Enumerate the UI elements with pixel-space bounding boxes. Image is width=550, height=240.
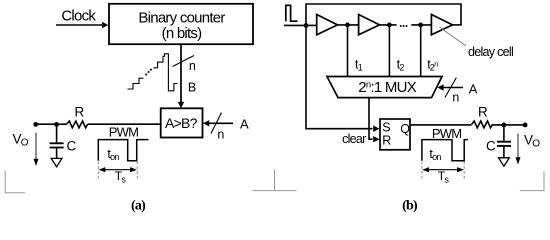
svg-text:n: n [217, 127, 224, 141]
bus slash n [173, 56, 195, 67]
svg-text:R: R [75, 105, 85, 120]
leader delay cell [440, 27, 467, 46]
node Vo (b) [523, 123, 528, 128]
ellipsis dots [400, 25, 402, 27]
wire to node [493, 124, 525, 126]
waveform PWM (b) [422, 140, 468, 161]
wire tap t2n [420, 25, 422, 77]
wire input [284, 24, 317, 26]
latch SR [380, 119, 410, 150]
node input [304, 23, 309, 28]
svg-text:Clock: Clock [61, 8, 96, 25]
wire A input [208, 122, 233, 124]
dashed marker left (b) [421, 162, 423, 181]
bus slash n (A) [211, 113, 222, 134]
waveform staircase [128, 78, 144, 89]
wire [338, 24, 359, 26]
svg-text:R: R [382, 133, 391, 147]
svg-text:PWM: PWM [109, 125, 139, 140]
svg-text:n: n [452, 91, 459, 105]
node t2 [387, 23, 392, 28]
mux 2^n:1 [327, 77, 442, 98]
node t2n [418, 23, 423, 28]
wire to S input [306, 25, 373, 128]
delay buffer 1 [317, 15, 338, 35]
svg-text:A>B?: A>B? [165, 115, 198, 131]
capacitor C (b) [503, 125, 505, 141]
crop mark right [520, 171, 544, 190]
input pulse icon [286, 5, 298, 21]
arrow Vo (b) [517, 134, 519, 159]
crop mark middle [253, 190, 297, 192]
ground (b) [499, 158, 510, 166]
node C (b) [502, 123, 507, 128]
dashed marker right [136, 162, 138, 181]
wire feedback loop [306, 4, 461, 25]
bus slash n (b) [445, 78, 457, 98]
svg-text:(a): (a) [131, 198, 146, 213]
wire tap t2 [388, 25, 390, 77]
delay buffer 2 [359, 15, 380, 35]
block binary counter [109, 4, 253, 44]
dashed marker left [97, 162, 99, 181]
svg-text:clear: clear [342, 132, 366, 146]
delay buffer last [431, 15, 452, 35]
wire [380, 24, 397, 26]
arrow Vo [35, 133, 37, 161]
wire buffer out [453, 24, 462, 26]
svg-text:(n bits): (n bits) [162, 25, 203, 42]
svg-text:Binary counter: Binary counter [138, 10, 225, 27]
wire clock arrow [56, 24, 103, 26]
wire [411, 24, 431, 26]
svg-text:Q: Q [400, 122, 410, 136]
svg-text:n: n [189, 59, 196, 73]
svg-text:delay cell: delay cell [468, 45, 513, 59]
resistor R [67, 121, 88, 128]
svg-text:C: C [67, 139, 77, 154]
svg-text:C: C [486, 139, 496, 154]
wire output to RC [36, 123, 67, 125]
svg-text:A: A [469, 81, 478, 96]
arrow Ts span (b) [427, 169, 460, 171]
crop mark left [5, 171, 25, 193]
wire tap t1 [347, 25, 349, 77]
svg-text:B: B [188, 80, 196, 94]
arrow Ts span [103, 169, 133, 171]
wire mux out to R(clear) [369, 98, 373, 140]
wire Q out [410, 124, 472, 126]
node C [54, 122, 59, 127]
ground [51, 158, 62, 166]
resistor R (b) [472, 121, 493, 128]
dashed marker right (b) [463, 162, 465, 181]
svg-text:A: A [240, 116, 249, 131]
svg-text:(b): (b) [402, 198, 418, 213]
wire B bus [180, 44, 182, 103]
wire A select [443, 87, 464, 89]
capacitor C [56, 124, 58, 142]
node t1 [345, 23, 350, 28]
svg-text:R: R [478, 105, 488, 120]
comparator A>B? [161, 108, 203, 137]
waveform PWM (a) [98, 140, 148, 161]
node Vo [33, 122, 38, 127]
